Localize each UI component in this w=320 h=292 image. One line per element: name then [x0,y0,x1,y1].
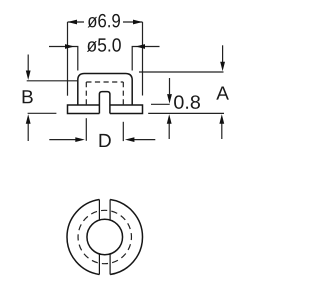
dimension phi6.9 label [88,14,120,28]
dimension D right extension line [122,122,124,141]
dimension B bottom extension line [28,112,57,114]
dimension B bottom arrow [27,124,29,142]
bottom view outer circle [67,200,143,275]
body outline (side view) [78,74,132,106]
dimension phi5.0 dim line left tail [49,47,78,71]
dimension phi5.0 left arrowhead [65,44,75,49]
bottom view bottom slot walls [99,254,110,275]
dimension A label [216,87,229,100]
dimension D dim line right tail with arrow [134,139,155,141]
dimension phi5.0 right arrowhead [136,44,146,49]
bottom extension line (flange bottom, right) [148,112,224,114]
dimension 0.8 down arrow [169,78,171,94]
dimension 0.8 label [174,95,200,108]
bottom view dashed circle [78,210,131,263]
dimension B top extension line [27,80,78,82]
dimension D label [100,134,111,147]
dimension 0.8 up arrow [168,124,170,140]
hidden bore dashed line [86,81,123,83]
bottom view inner circle [87,219,123,255]
dimension 0.8 top extension line [151,103,170,105]
dimension D left extension line [85,118,87,141]
dimension A up arrow [221,124,223,140]
dimension phi6.9 extension line right [142,22,144,96]
dimension D dim line left tail with arrow [49,139,76,141]
dimension phi5.0 label [87,38,121,52]
dimension phi6.9 right arrowhead [133,20,143,25]
dimension phi6.9 left arrowhead [68,20,78,25]
flange (side view) [68,105,143,114]
dimension phi6.9 extension line left [67,22,69,96]
dimension A down arrow [222,45,224,62]
dimension phi6.9 dim line [68,21,143,23]
dimension B label [23,90,33,103]
dimension phi5.0 dim line right tail [132,47,159,71]
dimension A top extension line [139,71,224,73]
bottom view top slot walls [99,200,110,221]
dimension B top arrow [27,55,29,72]
slot (side view) [99,92,110,114]
